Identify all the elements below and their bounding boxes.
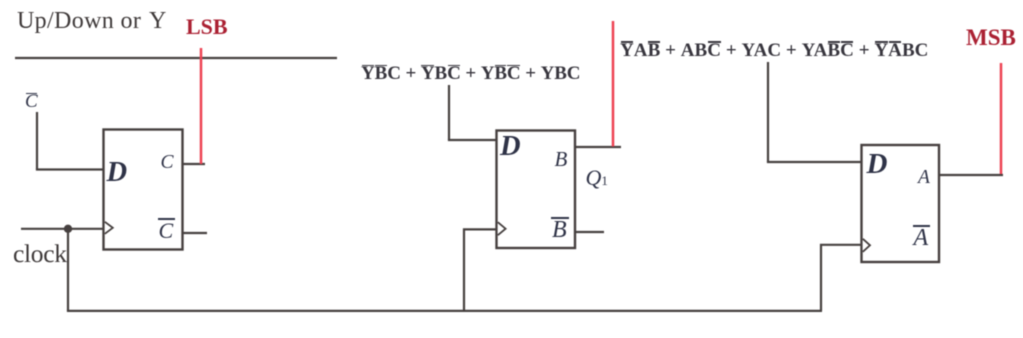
wire D input U3 [767, 161, 861, 163]
label expression D3 [620, 41, 928, 60]
wire clock drop [67, 229, 69, 311]
wire Bbar output U2 [575, 231, 604, 233]
pin D U1 [107, 159, 128, 188]
node clock junction dot [64, 225, 72, 233]
pin C U1 [161, 153, 174, 173]
wire Cbar output U1 [182, 232, 207, 234]
label expression D2 [361, 64, 580, 83]
wire A output U3 [939, 174, 1003, 176]
wire clock riser U2 [464, 229, 496, 311]
pin Abar U3 [914, 226, 929, 250]
label clock [13, 241, 67, 267]
wire D input U2 [448, 139, 496, 141]
flip-flop U1 box [104, 130, 183, 250]
wire D input U1 [36, 168, 103, 170]
wire D input U3 stem [767, 62, 769, 162]
label Cbar input net [25, 92, 38, 111]
wire clock riser U3 [821, 245, 861, 311]
clock triangle U2 [498, 222, 506, 235]
wire Q1 red probe [612, 21, 615, 147]
label MSB [966, 26, 1016, 49]
wire MSB red probe [1000, 63, 1003, 174]
wire clock bottom run [67, 310, 822, 312]
clock triangle U3 [863, 239, 870, 252]
wire clock horizontal [21, 228, 103, 230]
wire D input U2 stem [448, 85, 450, 140]
wire LSB red probe [200, 48, 203, 164]
clock triangle U1 [105, 222, 113, 234]
pin D U3 [867, 150, 888, 179]
pin B U2 [555, 149, 568, 170]
wire Cbar label stem [36, 112, 38, 170]
flip-flop U2 box [497, 131, 576, 249]
pin Bbar U2 [552, 218, 567, 242]
pin Cbar U1 [159, 220, 174, 242]
pin D U2 [500, 133, 521, 162]
wire C output U1 [182, 163, 205, 165]
wire Up/Down bus line [15, 57, 337, 59]
label Up/Down or Y [17, 9, 167, 33]
label Q1 output [586, 167, 608, 189]
label LSB [186, 16, 228, 38]
wire B output U2 [575, 146, 621, 148]
flip-flop U3 box [862, 145, 940, 262]
pin A U3 [918, 168, 930, 188]
